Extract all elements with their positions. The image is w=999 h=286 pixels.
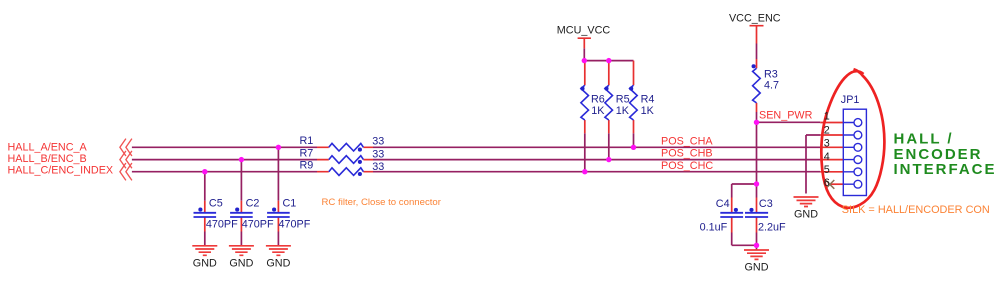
svg-text:1K: 1K: [641, 105, 655, 117]
svg-text:HALL_C/ENC_INDEX: HALL_C/ENC_INDEX: [8, 164, 114, 176]
svg-text:2.2uF: 2.2uF: [758, 222, 786, 234]
svg-text:1: 1: [824, 110, 830, 122]
svg-text:1K: 1K: [616, 105, 630, 117]
svg-text:33: 33: [372, 148, 384, 160]
svg-text:GND: GND: [266, 258, 290, 270]
svg-text:SEN_PWR: SEN_PWR: [759, 110, 813, 122]
svg-text:33: 33: [372, 161, 384, 173]
svg-text:VCC_ENC: VCC_ENC: [729, 12, 781, 24]
svg-text:1K: 1K: [591, 105, 605, 117]
svg-text:470PF: 470PF: [279, 219, 311, 231]
svg-text:C5: C5: [209, 198, 223, 210]
svg-text:2: 2: [824, 124, 830, 136]
svg-text:C1: C1: [283, 198, 297, 210]
svg-text:33: 33: [372, 136, 384, 148]
svg-text:C4: C4: [716, 198, 730, 210]
svg-text:R1: R1: [300, 135, 314, 147]
svg-text:GND: GND: [745, 262, 769, 274]
svg-text:R5: R5: [616, 93, 630, 105]
svg-text:R9: R9: [300, 160, 314, 172]
svg-text:6: 6: [824, 177, 830, 189]
svg-text:POS_CHB: POS_CHB: [661, 148, 713, 160]
svg-text:0.1uF: 0.1uF: [700, 222, 728, 234]
svg-text:MCU_VCC: MCU_VCC: [557, 25, 611, 37]
svg-text:HALL_B/ENC_B: HALL_B/ENC_B: [8, 153, 87, 165]
svg-text:POS_CHC: POS_CHC: [661, 160, 713, 172]
svg-text:GND: GND: [794, 209, 818, 221]
svg-text:GND: GND: [229, 258, 253, 270]
svg-text:4.7: 4.7: [764, 80, 779, 92]
svg-text:R3: R3: [764, 68, 778, 80]
svg-text:470PF: 470PF: [242, 219, 274, 231]
svg-text:INTERFACE: INTERFACE: [894, 161, 997, 178]
svg-text:470PF: 470PF: [206, 219, 238, 231]
svg-text:GND: GND: [193, 258, 217, 270]
svg-text:POS_CHA: POS_CHA: [661, 135, 713, 147]
svg-text:HALL_A/ENC_A: HALL_A/ENC_A: [8, 141, 88, 153]
svg-text:R6: R6: [591, 93, 605, 105]
svg-text:R4: R4: [641, 93, 655, 105]
svg-text:C2: C2: [246, 198, 260, 210]
svg-text:4: 4: [824, 151, 830, 163]
svg-text:5: 5: [824, 164, 830, 176]
svg-text:C3: C3: [759, 198, 773, 210]
svg-text:RC filter, Close to connector: RC filter, Close to connector: [322, 197, 442, 208]
svg-text:R7: R7: [300, 147, 314, 159]
svg-text:3: 3: [824, 138, 830, 150]
svg-text:JP1: JP1: [841, 94, 860, 106]
svg-text:SILK = HALL/ENCODER CON: SILK = HALL/ENCODER CON: [842, 204, 990, 216]
